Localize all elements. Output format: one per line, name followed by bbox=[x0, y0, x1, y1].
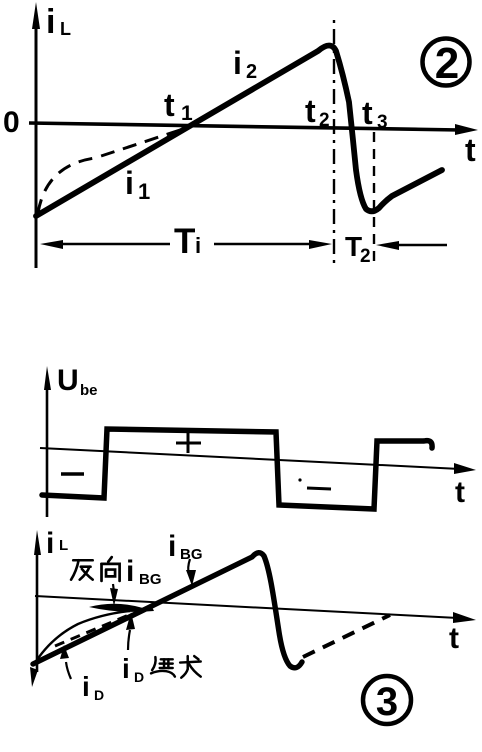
svg-text:BG: BG bbox=[139, 571, 162, 588]
T2 dimension arrow right part bbox=[376, 241, 447, 250]
T1 dimension arrow left part bbox=[40, 240, 170, 249]
label Ube bbox=[57, 364, 98, 399]
svg-text:t: t bbox=[362, 95, 373, 131]
waveform iBG main line with fall bbox=[33, 553, 302, 668]
circled number 3 bbox=[363, 676, 411, 724]
svg-text:2: 2 bbox=[319, 110, 330, 131]
label Ti bbox=[174, 222, 201, 261]
svg-text:D: D bbox=[94, 687, 104, 703]
svg-text:2: 2 bbox=[360, 246, 371, 267]
svg-text:i: i bbox=[126, 555, 134, 588]
label iBG top bbox=[168, 530, 203, 563]
middle graph horizontal axis t bbox=[40, 448, 476, 474]
arrow from iD label up bbox=[60, 645, 71, 679]
bottom graph vertical axis iL bbox=[30, 530, 41, 687]
waveform Ube square wave bbox=[42, 429, 432, 509]
label yanchang (hanzi chang) bbox=[180, 656, 201, 678]
svg-text:i: i bbox=[46, 527, 54, 560]
label fanxiang iBG text part bbox=[126, 555, 162, 588]
svg-text:L: L bbox=[60, 19, 71, 39]
label minus second bbox=[298, 478, 331, 489]
svg-text:t: t bbox=[455, 476, 465, 509]
label minus first bbox=[61, 472, 84, 476]
svg-text:L: L bbox=[59, 537, 68, 554]
arrow from fanxiang iBG label down bbox=[110, 584, 118, 606]
label iL bottom bbox=[46, 527, 68, 560]
dash-dot line at t2 bbox=[333, 20, 335, 266]
svg-text:i: i bbox=[168, 530, 176, 563]
label t3 bbox=[362, 95, 388, 133]
label t2 bbox=[305, 93, 330, 131]
arrow from iD yanchang label up bbox=[126, 612, 135, 650]
arrow from iBG label down bbox=[186, 559, 196, 586]
reverse iBG lens blob bbox=[89, 604, 154, 612]
label iD bbox=[82, 671, 104, 703]
svg-text:t: t bbox=[164, 87, 175, 123]
dashed iD extension right bbox=[303, 615, 390, 657]
label iL top bbox=[46, 3, 71, 41]
bottom graph horizontal axis t bbox=[35, 596, 476, 623]
svg-text:i: i bbox=[125, 165, 134, 201]
dashed iD extension left bbox=[55, 614, 131, 646]
dashed line at t3 bbox=[373, 132, 375, 266]
circled number 2 bbox=[423, 39, 470, 89]
T1 dimension arrow right part bbox=[214, 240, 332, 249]
label plus bbox=[176, 432, 201, 453]
waveform i1 dashed curve bbox=[38, 126, 192, 213]
label fanxiang (hanzi fan) bbox=[71, 560, 93, 579]
label iD yanchang text part bbox=[122, 653, 144, 685]
svg-text:t: t bbox=[465, 132, 476, 168]
label i1 bbox=[125, 165, 150, 204]
svg-text:i: i bbox=[195, 233, 201, 258]
waveform iD thin curve bbox=[33, 611, 130, 666]
svg-text:BG: BG bbox=[180, 546, 203, 563]
svg-text:1: 1 bbox=[181, 102, 193, 125]
svg-text:i: i bbox=[82, 671, 90, 702]
svg-text:0: 0 bbox=[3, 106, 20, 139]
top graph vertical axis iL bbox=[32, 2, 40, 268]
top graph horizontal axis t bbox=[29, 123, 478, 135]
svg-text:i: i bbox=[46, 3, 55, 41]
label fanxiang (hanzi xiang) bbox=[102, 557, 120, 581]
svg-text:i: i bbox=[233, 45, 242, 81]
label i2 bbox=[233, 45, 257, 83]
svg-text:3: 3 bbox=[376, 680, 398, 724]
svg-text:U: U bbox=[57, 364, 79, 397]
svg-text:1: 1 bbox=[138, 179, 150, 204]
middle graph vertical axis Ube bbox=[44, 366, 51, 517]
svg-text:be: be bbox=[80, 382, 98, 399]
svg-text:t: t bbox=[305, 93, 316, 129]
svg-text:2: 2 bbox=[435, 39, 459, 88]
label t1 bbox=[164, 87, 193, 125]
svg-text:3: 3 bbox=[377, 112, 388, 133]
label yanchang (hanzi yan) bbox=[151, 657, 175, 676]
svg-text:2: 2 bbox=[246, 61, 257, 83]
svg-text:t: t bbox=[449, 622, 459, 655]
svg-text:T: T bbox=[174, 222, 195, 261]
svg-text:i: i bbox=[122, 653, 130, 684]
waveform i2 main sawtooth bbox=[36, 46, 442, 217]
label T2 bbox=[345, 231, 371, 267]
svg-text:D: D bbox=[134, 669, 144, 685]
